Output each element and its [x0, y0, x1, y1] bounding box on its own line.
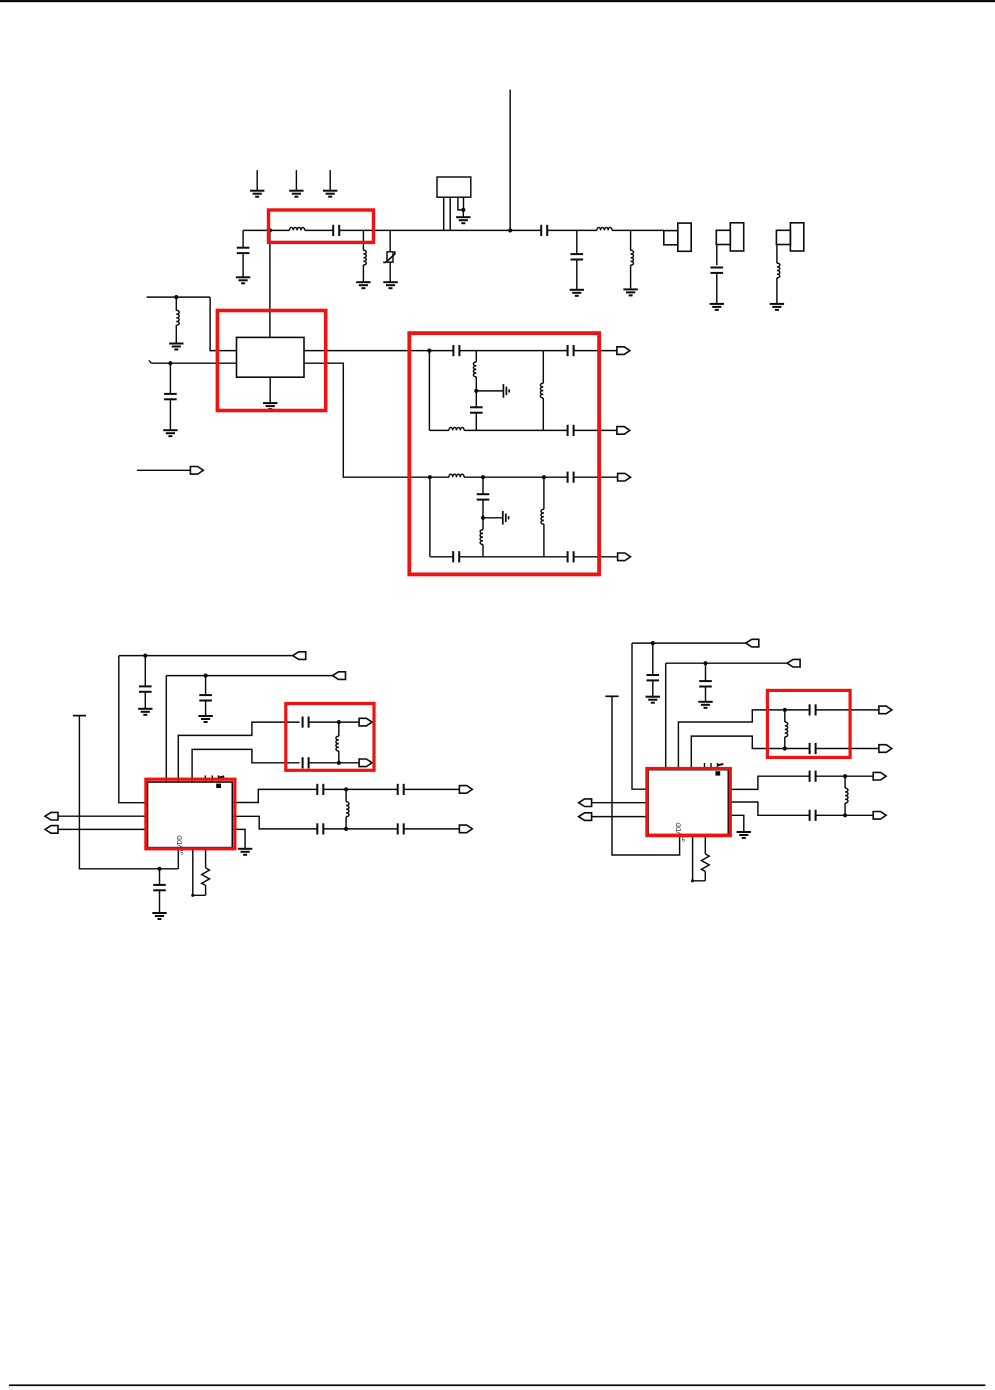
wire U2 gnd pin stub — [232, 829, 245, 848]
wire U2 out2 route down — [232, 816, 317, 829]
capacitor C14 (series lower bottom rail) — [453, 551, 459, 562]
wire lower bottom rail seg1 — [430, 556, 453, 558]
capacitor C20 (shunt on ANT1) — [139, 656, 152, 709]
inductor L6 (under J3) — [777, 245, 780, 304]
pin tick U3-a — [704, 763, 706, 770]
inductor L4 (series) — [597, 228, 612, 231]
connector J2 — [716, 223, 743, 251]
ground right of U2 — [238, 849, 252, 855]
ground under J0 — [456, 217, 470, 223]
output arrow port P7 — [359, 759, 372, 767]
wire filter upper to arrow — [816, 709, 879, 711]
wire U2 bias leg right lower — [205, 885, 207, 895]
inductor L3 (shunt on VCC feed) — [176, 297, 179, 343]
wire ANT2 down to U2 top pin — [165, 676, 167, 782]
capacitor C3 (shunt on control line) — [164, 363, 177, 430]
output arrow port P13 — [873, 812, 886, 820]
capacitor C10 (series top rail) — [453, 345, 459, 356]
wire control line to U1 with start tick — [149, 360, 237, 363]
node lower filter node B — [481, 475, 485, 479]
wire bottom rail seg2 — [464, 429, 567, 431]
wire VDD rail down and to U3 — [612, 696, 680, 855]
inductor L1 (series, in red box) — [290, 228, 305, 231]
pin flag U2 — [218, 776, 224, 777]
inductor L15 (shunt in red filter) — [785, 710, 788, 749]
pin tick U2-b — [211, 775, 213, 782]
node bias corner U3 — [691, 879, 694, 882]
red highlight box 6 (LNA U3) — [647, 769, 730, 836]
ground under C22 — [152, 913, 166, 919]
pin marker blob U3 — [715, 771, 720, 775]
output arrow port P5 — [618, 553, 631, 561]
port arrow ANT4 (left-pointing) — [787, 659, 800, 667]
node junction out1 right — [843, 774, 847, 778]
wire U2 bias leg left — [193, 848, 206, 896]
pin flag U3 — [718, 764, 724, 765]
floating ground stub 3 — [323, 170, 337, 197]
pin tick U3-b — [710, 763, 712, 770]
wire VCC feed upper-left — [147, 296, 211, 298]
wire U2 bias leg right upper — [205, 848, 207, 868]
node junction lower filter — [337, 761, 341, 765]
node junction out1 — [344, 787, 348, 791]
page footer rule — [9, 1384, 985, 1386]
capacitor C13 (series to output 2) — [568, 425, 574, 436]
red highlight box 7 (output filter right) — [767, 690, 850, 757]
wire U3 bias leg right upper — [704, 835, 706, 854]
wire U3 top pin route to filter lower — [691, 736, 785, 770]
wire U1 bottom pin — [269, 377, 271, 403]
node antenna junction — [508, 228, 512, 232]
capacitor C23 (series, red filter upper) — [303, 717, 309, 728]
op-amp U1 antenna switch box — [237, 337, 305, 377]
node shunt branch mid junction — [474, 389, 478, 393]
capacitor C21 (shunt on ANT2) — [199, 676, 212, 716]
wire filter upper seg — [785, 709, 810, 711]
wire U3 top pin route to filter upper — [678, 710, 784, 770]
node junction red filter upper — [783, 708, 787, 712]
wire out2 to arrow — [404, 828, 460, 830]
ground under C20 — [138, 709, 152, 715]
pin tick U2-a — [204, 775, 206, 782]
port arrow RFIN2 (left-pointing) — [45, 826, 58, 834]
wire bottom filter left vertical — [429, 477, 431, 557]
wire main RF line seg5 — [612, 229, 664, 231]
power rail tap VDD bar — [73, 715, 86, 717]
ground under L6 — [770, 304, 784, 310]
output arrow port P11 — [879, 745, 892, 753]
capacitor C2 (series, in red box) — [333, 225, 339, 236]
node junction on ANT4 line — [703, 661, 707, 665]
capacitor C16 (series to output 3) — [568, 472, 574, 483]
wire top rail seg4 — [574, 350, 617, 352]
capacitor C11 (shunt branch lower) — [470, 391, 483, 431]
ground under C21 — [198, 716, 212, 722]
connector J3 — [776, 223, 803, 251]
wire U2 top pin route to filter lower — [192, 749, 300, 782]
svg-text:VDD: VDD — [676, 822, 683, 836]
node top filter input junction — [427, 349, 431, 353]
wire lower bottom rail seg2 — [459, 556, 567, 558]
capacitor C33 (series, red filter lower) — [810, 743, 816, 754]
wire down to antenna switch U1 — [269, 230, 271, 337]
node lower shunt mid junction — [481, 516, 485, 520]
wire U1 RX1 output to diplexer — [304, 350, 429, 352]
varistor RV1 (shunt) — [383, 230, 395, 282]
node junction on ANT2 line — [204, 674, 208, 678]
ground under L2 — [356, 282, 370, 288]
resistor R2 (bias) — [701, 854, 709, 872]
wire J0 pin2 — [449, 197, 451, 230]
antenna stub wire — [509, 90, 511, 231]
output arrow port P3 — [617, 427, 630, 435]
wire RFIN4 to U3 — [592, 816, 649, 818]
wire J0 pin4 — [463, 197, 465, 210]
port arrow RFIN4 (left-pointing) — [579, 813, 592, 821]
inductor L9 (right shunt top filter) — [540, 351, 543, 431]
connector J1 — [664, 223, 691, 251]
inductor L5 (shunt) — [631, 230, 634, 289]
wire U3 out1 route up — [728, 776, 809, 789]
wire bottom rail seg1 — [429, 429, 449, 431]
capacitor C31 (shunt on ANT4) — [699, 663, 712, 701]
wire out2 to junction — [816, 814, 874, 816]
wire ANT1 down to U2 left pin — [119, 656, 148, 803]
wire main RF line seg2 — [305, 229, 334, 231]
node junction on VDD line — [157, 867, 161, 871]
wire bottom rail seg3 — [574, 429, 617, 431]
port arrow ANT2 (left-pointing) — [333, 672, 346, 680]
capacitor C32 (series, red filter upper) — [810, 704, 816, 715]
capacitor C6 (series) — [541, 225, 547, 236]
capacitor C24 (series, red filter lower) — [303, 757, 309, 768]
capacitor C17 (series to output 4) — [568, 551, 574, 562]
wire out2 mid — [323, 828, 397, 830]
output arrow port P12 — [873, 772, 886, 780]
wire U3 bias leg left — [693, 835, 706, 881]
port arrow ANT1 (left-pointing) — [293, 652, 306, 660]
red highlight box 1 (antenna filter) — [269, 210, 374, 242]
inductor L8 (series bottom rail) — [449, 428, 464, 431]
output arrow port P6 — [359, 718, 372, 726]
node lower filter right node — [542, 475, 546, 479]
wire RFIN1 to U2 — [58, 815, 148, 817]
wire VCC feed to U1 pin — [210, 297, 236, 351]
node junction on control line — [168, 361, 172, 365]
output arrow port P4 — [618, 473, 631, 481]
wire ANT4 down to U3 top pin — [665, 663, 667, 770]
capacitor C25 (series out1 a) — [317, 784, 323, 795]
op-amp U2 LNA box — [148, 782, 233, 848]
wire main RF line seg3 — [339, 229, 541, 231]
wire ANT2 line — [166, 675, 332, 677]
output arrow port P2 — [617, 347, 630, 355]
wire ANT4 line — [666, 662, 787, 664]
resistor R1 (bias) — [202, 868, 210, 886]
capacitor C7 (shunt) — [571, 230, 584, 289]
wire U2 top pin route to filter upper — [178, 722, 299, 782]
output arrow port P8 — [459, 786, 472, 794]
node J0 ground junction — [461, 208, 465, 212]
capacitor C22 (VDD decoupling) — [153, 869, 166, 913]
inductor L10 (series lower filter) — [449, 474, 464, 477]
wire out1 mid — [323, 788, 397, 790]
wire top rail seg2 — [459, 350, 543, 352]
capacitor C28 (series out2 b) — [398, 823, 404, 834]
wire VDD riser to U2 pin5 — [177, 848, 179, 869]
ground under C31 — [698, 702, 712, 708]
capacitor C8 (under J2) — [711, 245, 724, 304]
capacitor C1 (shunt at line start) — [237, 230, 250, 277]
inductor L12 (right shunt lower filter) — [541, 477, 544, 557]
ground under U1 — [263, 403, 277, 409]
capacitor C34 (series out1) — [810, 771, 816, 782]
capacitor C15 (shunt branch upper lower-filter) — [477, 477, 490, 518]
wire RFIN2 to U2 — [58, 828, 148, 830]
floating ground stub 1 — [250, 170, 264, 197]
ESD protector box J0 — [437, 177, 471, 197]
wire main RF line seg4 — [547, 229, 597, 231]
wire top filter left vertical — [428, 351, 430, 431]
wire to side ground lower — [483, 517, 502, 519]
wire filter lower seg — [785, 748, 810, 750]
pin tick U3-c — [717, 763, 719, 770]
ground under C8 — [710, 304, 724, 310]
inductor L14 (shunt between out1/out2) — [346, 789, 349, 829]
inductor L2 (shunt) — [363, 230, 366, 282]
port arrow RFIN3 (left-pointing) — [579, 799, 592, 807]
red highlight box 4 (LNA U2) — [146, 779, 235, 849]
ground under C30 — [646, 697, 660, 703]
svg-text:VDD: VDD — [176, 835, 183, 849]
wire lower top rail seg1 — [430, 476, 449, 478]
wire top rail seg1 — [429, 350, 453, 352]
wire filter lower to arrow — [309, 762, 360, 764]
wire out1 to arrow — [404, 788, 460, 790]
output arrow port P10 — [879, 706, 892, 714]
wire U3 out2 route down — [728, 802, 809, 815]
node bottom filter input junction — [428, 475, 432, 479]
ground under C3 — [163, 430, 177, 436]
capacitor C27 (series out2 a) — [317, 823, 323, 834]
wire filter lower to arrow — [816, 748, 879, 750]
wire filter upper to arrow — [309, 721, 360, 723]
node junction red filter lower — [783, 746, 787, 750]
op-amp U3 LNA box — [648, 770, 728, 835]
floating ground stub 2 — [289, 170, 303, 197]
output arrow port P9 — [459, 825, 472, 833]
wire top rail seg3 — [543, 350, 567, 352]
red highlight box 2 (antenna switch) — [217, 311, 325, 411]
node junction on ANT3 line — [651, 641, 655, 645]
inductor L7 (shunt branch upper) — [473, 351, 476, 391]
pin tick U2-c — [217, 775, 219, 782]
wire lower top rail seg3 — [574, 476, 618, 478]
ground (sideways) lower filter — [503, 511, 509, 525]
ground under RV1 — [383, 282, 397, 288]
node junction on ANT1 line — [143, 654, 147, 658]
capacitor C30 (shunt on ANT3) — [647, 643, 660, 696]
wire U3 bias leg right lower — [704, 871, 706, 880]
wire ANT3 line — [632, 642, 746, 644]
wire U1 RX2 output routed down — [304, 363, 430, 477]
wire U3 gnd pin stub — [728, 815, 744, 831]
wire ANT3 down to U3 left pin — [632, 643, 648, 789]
wire RFIN3 to U3 — [592, 802, 649, 804]
ground under L3 — [169, 344, 183, 350]
input arrow port P1 — [137, 467, 203, 475]
red highlight box 3 (diplexer filters) — [409, 333, 599, 574]
ground under C1 — [236, 277, 250, 283]
svg-text:5: 5 — [180, 851, 183, 857]
ground (sideways) top filter — [503, 384, 509, 398]
ground under C7 — [570, 290, 584, 296]
capacitor C35 (series out2) — [810, 810, 816, 821]
inductor L16 (shunt between out1/out2) — [845, 776, 848, 815]
red highlight box 5 (output filter) — [286, 704, 374, 771]
capacitor C12 (series to output 1) — [568, 345, 574, 356]
wire ANT1 line — [119, 655, 293, 657]
inductor L13 (shunt between filter outputs) — [336, 722, 339, 763]
wire to ground — [462, 210, 464, 217]
wire VDD rail down and to U2 — [79, 716, 178, 869]
wire U2 out1 route up — [232, 789, 317, 802]
power rail tap VDD bar right — [605, 695, 618, 697]
wire J0 pin1 — [443, 197, 445, 230]
svg-text:5: 5 — [682, 838, 685, 844]
port arrow ANT3 (left-pointing) — [746, 639, 759, 647]
wire out1 to junction — [816, 775, 874, 777]
capacitor C26 (series out1 b) — [398, 784, 404, 795]
node junction out2 — [344, 827, 348, 831]
node junction out2 right — [843, 813, 847, 817]
wire to side ground — [476, 390, 503, 392]
page top border — [0, 0, 995, 2]
port arrow RFIN1 (left-pointing) — [45, 812, 58, 820]
ground right of U3 — [737, 832, 751, 838]
wire lower top rail seg2 — [464, 476, 567, 478]
wire J0 pin3 — [458, 197, 463, 210]
ground under L5 — [623, 289, 637, 295]
wire main RF line seg1 — [243, 229, 289, 231]
wire lower bottom rail seg3 — [574, 556, 618, 558]
node main/IC feed junction — [268, 228, 272, 232]
pin marker blob U2 — [216, 784, 221, 788]
node junction on VCC feed — [174, 295, 178, 299]
node bias corner — [191, 894, 194, 897]
node junction upper filter — [337, 720, 341, 724]
inductor L11 (shunt branch lower lower-filter) — [480, 518, 483, 557]
